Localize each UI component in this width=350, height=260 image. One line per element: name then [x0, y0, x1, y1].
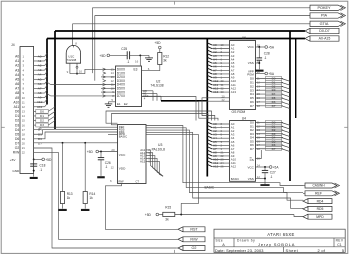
- svg-text:.1: .1: [127, 60, 130, 64]
- svg-text:16: 16: [135, 60, 139, 64]
- svg-text:22: 22: [222, 98, 226, 102]
- svg-text:A0: A0: [15, 55, 19, 59]
- svg-text:A11: A11: [37, 105, 43, 109]
- svg-text:POKEY: POKEY: [317, 6, 331, 10]
- svg-text:D1: D1: [40, 114, 44, 118]
- svg-text:22: 22: [22, 151, 26, 155]
- svg-text:A0-A15: A0-A15: [319, 37, 331, 41]
- svg-text:ATARI 65XE: ATARI 65XE: [267, 232, 295, 237]
- svg-text:PAL10L8: PAL10L8: [152, 147, 165, 151]
- svg-text:.1: .1: [270, 175, 273, 179]
- svg-text:.1: .1: [105, 165, 108, 169]
- svg-text:3k: 3k: [163, 58, 167, 62]
- svg-text:D4: D4: [15, 128, 19, 132]
- svg-text:21: 21: [22, 146, 26, 150]
- svg-text:U4: U4: [242, 116, 246, 120]
- svg-text:C1: C1: [337, 243, 342, 247]
- svg-text:A: A: [222, 243, 225, 247]
- svg-text:D3: D3: [15, 123, 19, 127]
- svg-text:A9: A9: [38, 96, 42, 100]
- svg-text:A4: A4: [15, 73, 19, 77]
- svg-text:+5D: +5D: [45, 158, 52, 162]
- svg-text:1k: 1k: [67, 196, 71, 200]
- svg-text:E1: E1: [117, 102, 121, 106]
- svg-text:A9: A9: [15, 96, 19, 100]
- svg-text:.1: .1: [264, 56, 267, 60]
- svg-text:A4: A4: [38, 73, 42, 77]
- svg-text:VDD: VDD: [119, 166, 126, 170]
- svg-text:D7: D7: [272, 147, 276, 151]
- svg-text:A6: A6: [15, 82, 19, 86]
- svg-text:A5: A5: [38, 77, 42, 81]
- svg-text:BASIC: BASIC: [119, 135, 127, 139]
- svg-text:A1: A1: [15, 59, 19, 63]
- svg-text:A13: A13: [213, 90, 219, 94]
- svg-text:MPD: MPD: [316, 215, 324, 219]
- svg-text:A10: A10: [13, 100, 19, 104]
- svg-text:+5V: +5V: [10, 158, 17, 162]
- svg-text:BASIC: BASIC: [205, 186, 215, 190]
- svg-text:A7: A7: [38, 86, 42, 90]
- svg-text:A2: A2: [15, 64, 19, 68]
- svg-text:+5A: +5A: [268, 72, 275, 76]
- svg-text:12: 12: [111, 165, 115, 169]
- svg-text:18: 18: [22, 132, 26, 136]
- svg-text:D5: D5: [15, 132, 19, 136]
- svg-text:A8: A8: [38, 91, 42, 95]
- svg-text:19: 19: [22, 137, 26, 141]
- svg-text:D3: D3: [40, 123, 44, 127]
- svg-text:R/W: R/W: [190, 237, 198, 241]
- svg-text:+5A: +5A: [273, 166, 280, 170]
- svg-text:E2: E2: [124, 102, 128, 106]
- svg-text:Date: September 23, 2003: Date: September 23, 2003: [215, 248, 264, 253]
- svg-text:14: 14: [22, 114, 26, 118]
- svg-text:18: 18: [257, 104, 261, 108]
- svg-text:+5D: +5D: [145, 213, 152, 217]
- svg-text:VCC: VCC: [247, 165, 254, 169]
- svg-text:A7: A7: [15, 87, 19, 91]
- svg-text:D6: D6: [15, 137, 19, 141]
- svg-text:A6: A6: [38, 82, 42, 86]
- svg-text:25: 25: [221, 165, 225, 169]
- svg-text:10: 10: [79, 69, 83, 73]
- svg-text:R/W: R/W: [13, 151, 20, 155]
- svg-text:D7XX: D7XX: [117, 94, 126, 98]
- svg-text:10: 10: [22, 96, 26, 100]
- svg-text:.1: .1: [40, 168, 43, 172]
- svg-text:2 of: 2 of: [318, 248, 326, 253]
- svg-text:D0-D7: D0-D7: [319, 29, 329, 33]
- svg-text:A11: A11: [14, 105, 20, 109]
- svg-text:17: 17: [22, 128, 26, 132]
- svg-text:VCC: VCC: [247, 45, 254, 49]
- svg-text:A5: A5: [15, 77, 19, 81]
- svg-text:RST: RST: [190, 227, 198, 231]
- svg-text:VCC: VCC: [119, 153, 126, 157]
- svg-text:A0: A0: [38, 54, 42, 58]
- svg-text:A3: A3: [38, 68, 42, 72]
- svg-text:A8: A8: [15, 91, 19, 95]
- svg-text:D7: D7: [272, 104, 276, 108]
- svg-text:D2: D2: [40, 119, 44, 123]
- svg-text:REF: REF: [315, 191, 322, 195]
- svg-text:15: 15: [22, 119, 26, 123]
- svg-text:GND: GND: [12, 169, 20, 173]
- svg-text:18: 18: [257, 147, 261, 151]
- svg-text:R15: R15: [165, 206, 171, 210]
- svg-text:1k: 1k: [89, 196, 93, 200]
- svg-text:REV: REV: [336, 239, 344, 243]
- svg-text:D0: D0: [15, 110, 19, 114]
- svg-text:13: 13: [22, 110, 26, 114]
- svg-text:CT: CT: [136, 180, 140, 184]
- svg-text:74LS08: 74LS08: [67, 58, 77, 62]
- svg-text:74LS138: 74LS138: [150, 84, 163, 88]
- svg-text:A10: A10: [37, 100, 43, 104]
- svg-text:PIA: PIA: [321, 14, 328, 18]
- svg-text:Jerzy SOBOLA: Jerzy SOBOLA: [258, 242, 295, 247]
- svg-text:11: 11: [22, 100, 25, 104]
- svg-text:16: 16: [22, 123, 26, 127]
- svg-text:D2: D2: [15, 119, 19, 123]
- svg-text:GTIA: GTIA: [320, 22, 329, 26]
- svg-text:RD4: RD4: [317, 199, 324, 203]
- svg-text:RD5: RD5: [317, 207, 324, 211]
- svg-text:3k: 3k: [165, 218, 169, 222]
- svg-text:A2: A2: [38, 64, 42, 68]
- svg-text:BASIC: BASIC: [231, 177, 239, 181]
- svg-text:A15: A15: [140, 159, 146, 163]
- svg-text:RNF: RNF: [119, 180, 125, 184]
- svg-text:E3: E3: [134, 68, 138, 72]
- svg-text:Drawn by: Drawn by: [237, 239, 255, 243]
- svg-text:D0: D0: [40, 109, 44, 113]
- svg-text:VSS: VSS: [248, 61, 254, 65]
- svg-text:+5D: +5D: [99, 54, 106, 58]
- svg-text:A12: A12: [213, 165, 219, 169]
- svg-text:D7: D7: [250, 104, 254, 108]
- svg-text:J4: J4: [11, 43, 15, 47]
- svg-text:OS ROM: OS ROM: [232, 110, 246, 114]
- svg-text:+5D: +5D: [154, 41, 161, 45]
- svg-text:CASINH: CASINH: [312, 184, 325, 188]
- svg-text:+5A: +5A: [268, 46, 275, 50]
- svg-text:A3: A3: [15, 68, 19, 72]
- svg-text:20: 20: [22, 142, 26, 146]
- svg-text:20: 20: [111, 148, 115, 152]
- svg-text:CS: CS: [250, 158, 254, 162]
- svg-text:A12: A12: [231, 165, 237, 169]
- svg-text:Sheet: Sheet: [286, 248, 299, 253]
- svg-text:D7: D7: [15, 142, 19, 146]
- svg-text:12: 12: [22, 105, 26, 109]
- svg-text:D7: D7: [250, 147, 254, 151]
- svg-text:O2: O2: [192, 246, 197, 250]
- svg-text:+5D: +5D: [87, 150, 94, 154]
- svg-text:D7: D7: [38, 141, 42, 145]
- svg-text:A1: A1: [38, 59, 42, 63]
- svg-text:C25: C25: [121, 47, 127, 51]
- svg-text:U6: U6: [242, 36, 246, 40]
- svg-text:A13: A13: [231, 90, 237, 94]
- svg-text:VSS: VSS: [248, 177, 254, 181]
- svg-text:5: 5: [342, 248, 344, 253]
- svg-text:D1: D1: [15, 114, 19, 118]
- svg-text:O2: O2: [15, 146, 20, 150]
